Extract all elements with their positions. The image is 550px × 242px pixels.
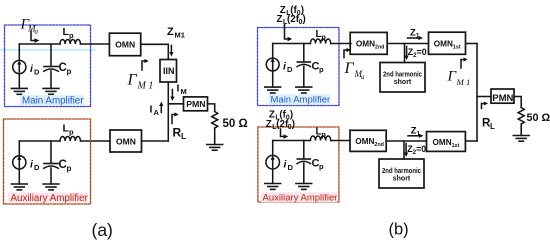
- Auxiliary Amplifier caption (b): [261, 192, 337, 203]
- ground under current source (b main): [265, 71, 281, 93]
- resistor 50ohm (a): [212, 112, 218, 129]
- wire down to current source (a aux): [18, 141, 20, 156]
- main amplifier enclosure (b): [258, 28, 340, 106]
- arrow elbow ZL node (b bottom): [281, 129, 289, 139]
- label 50 ohm (a): [223, 118, 248, 130]
- label Z2=0 (b top): [408, 47, 427, 59]
- label RL (a): [173, 126, 187, 142]
- vertical bus wire (b): [476, 44, 478, 142]
- svg-text:2nd harmonic: 2nd harmonic: [383, 71, 422, 78]
- arrow ZM1 down: [169, 46, 173, 57]
- svg-text:IIN: IIN: [163, 66, 175, 76]
- current source iD (a aux): [13, 156, 26, 169]
- label iD (b main): [283, 61, 293, 75]
- ground under current source (a aux): [11, 169, 27, 190]
- svg-text:p: p: [322, 132, 326, 139]
- Main Amplifier caption (a): [20, 95, 84, 106]
- current source iD (a main): [13, 60, 26, 73]
- label iD (a main): [30, 63, 40, 77]
- label Gamma_M1 (b): [447, 69, 471, 87]
- OMN1st box (b bottom): [427, 132, 466, 152]
- wire top (aux a): [19, 140, 60, 142]
- wire OMN to corner (a top): [141, 43, 169, 45]
- wire down to current source (b main): [272, 44, 274, 59]
- svg-text:a: a: [361, 73, 365, 81]
- svg-text:Auxiliary Amplifier: Auxiliary Amplifier: [11, 193, 89, 204]
- OMN box (a bottom): [110, 130, 142, 152]
- label Cp (b main): [312, 61, 325, 75]
- inductor Lp (b main): [310, 39, 330, 44]
- wire PMN to load resistor (b): [514, 97, 521, 108]
- OMN2nd box (b bottom): [350, 130, 386, 151]
- wire from top node down to current source (a main): [18, 44, 20, 60]
- svg-text:p: p: [67, 164, 72, 173]
- label iD (a aux): [30, 159, 40, 173]
- capacitor Cp branch wire (b aux): [303, 141, 305, 159]
- label Z1 (b top): [410, 26, 420, 39]
- capacitor Cp (a main): [44, 67, 58, 89]
- svg-text:a: a: [35, 28, 39, 36]
- auxiliary amplifier enclosure (b): [258, 127, 339, 202]
- svg-text:D: D: [287, 65, 293, 74]
- ground under current source (a main): [11, 74, 27, 95]
- label ZL(f0) (b bottom): [269, 109, 293, 121]
- wire top (b aux): [273, 140, 311, 142]
- 2nd harmonic short box (b top): [380, 63, 425, 93]
- label RL (b): [482, 118, 495, 132]
- ground under capacitor (a aux): [43, 184, 59, 190]
- svg-text:OMN: OMN: [115, 40, 135, 50]
- capacitor Cp (a aux): [44, 164, 58, 184]
- wire bus to PMN (b): [477, 96, 491, 98]
- svg-text:50 Ω: 50 Ω: [527, 112, 550, 124]
- wire coil to OMN2nd (b top): [331, 43, 351, 45]
- label Cp (a main): [59, 62, 72, 76]
- PMN box (a): [184, 97, 208, 111]
- svg-text:Main Amplifier: Main Amplifier: [22, 96, 84, 107]
- svg-text:p: p: [69, 128, 74, 137]
- arrow elbow at Gamma_Ma node: [31, 31, 40, 43]
- hook arrow Gamma_M1 (a): [142, 59, 149, 70]
- arrow Z2 down (b bottom): [404, 144, 408, 158]
- OMN box (a top): [109, 33, 140, 56]
- label IM (a): [177, 83, 187, 97]
- caption (a): [92, 220, 113, 240]
- wire junction down to harmonic short (b top): [404, 44, 406, 63]
- svg-text:D: D: [288, 163, 294, 172]
- svg-text:D: D: [34, 163, 40, 172]
- hook arrow RL (a): [172, 112, 179, 123]
- wire OMN1st to bus (b bottom): [466, 140, 478, 142]
- label ZL(f0) (b top): [280, 5, 304, 17]
- capacitor Cp branch wire (a main): [50, 44, 52, 66]
- svg-text:Z: Z: [266, 119, 272, 130]
- ground under capacitor (b aux): [296, 184, 312, 190]
- inductor Lp (b aux): [310, 136, 330, 141]
- svg-text:M1: M1: [175, 31, 185, 40]
- wire aux to lower OMN (a): [81, 140, 111, 142]
- svg-text:OMN: OMN: [116, 137, 136, 147]
- svg-text:PMN: PMN: [492, 93, 513, 104]
- svg-text:(a): (a): [92, 220, 113, 240]
- IIN box (a): [160, 60, 177, 83]
- svg-text:PMN: PMN: [186, 99, 205, 109]
- svg-text:p: p: [319, 65, 324, 74]
- label Lp (a main): [63, 26, 75, 40]
- svg-text:): ): [292, 119, 295, 130]
- svg-text:): ): [303, 14, 306, 25]
- faint scan artifact line: [0, 49, 95, 51]
- svg-text:p: p: [67, 67, 72, 76]
- label Z1 (b bottom): [411, 124, 421, 137]
- wire top (b main): [273, 43, 311, 45]
- arrow Z1 right (b bottom): [408, 134, 424, 138]
- OMN2nd box (b top): [350, 32, 387, 54]
- label iD (b aux): [284, 159, 294, 173]
- PMN box (b): [491, 89, 514, 104]
- svg-text:short: short: [393, 176, 411, 183]
- wire OMN2nd to OMN1st (b top): [389, 43, 428, 45]
- wire junction to PMN (a): [168, 103, 183, 105]
- caption (b): [389, 221, 409, 239]
- ground under load (a): [207, 145, 223, 151]
- wire OMN1st right to bus (b top): [467, 43, 478, 45]
- wire IIN down to junction (a): [167, 82, 169, 141]
- svg-text:p: p: [322, 35, 326, 42]
- inductor Lp (a aux): [60, 137, 80, 142]
- svg-text:D: D: [34, 68, 40, 77]
- wire down to current source (b aux): [272, 141, 274, 156]
- svg-text:Z: Z: [277, 14, 283, 25]
- wire resistor to ground (a): [214, 128, 216, 144]
- label Cp (b aux): [312, 158, 325, 172]
- wire resistor to ground (b): [520, 124, 522, 135]
- label Z2=0 (b bottom): [407, 144, 426, 156]
- label Lp (a aux): [63, 123, 75, 137]
- svg-text:I: I: [150, 104, 153, 116]
- svg-text:2nd harmonic: 2nd harmonic: [382, 168, 421, 175]
- current source iD (b main): [266, 58, 279, 71]
- resistor 50ohm (b): [518, 108, 524, 125]
- ground under current source (b aux): [265, 169, 281, 189]
- current source iD (b aux): [266, 155, 280, 169]
- label Cp (a aux): [59, 159, 72, 173]
- svg-text:M: M: [181, 87, 187, 96]
- label ZL(2f0) (b top): [277, 14, 306, 26]
- hook arrow Gamma_Ma (b): [344, 48, 351, 58]
- label IA (a): [150, 104, 160, 118]
- Main Amplifier caption (b): [269, 94, 331, 105]
- label ZL(2f0) (b bottom): [266, 119, 295, 131]
- svg-text:Γ: Γ: [127, 72, 138, 89]
- ground under capacitor (a main): [43, 88, 59, 94]
- arrow IM down: [170, 90, 174, 102]
- svg-text:Γ: Γ: [344, 60, 355, 77]
- label Gamma_Ma (b): [344, 60, 366, 81]
- main amplifier enclosure (a): [5, 25, 91, 107]
- arrow Z1 right (b top): [408, 36, 424, 40]
- arrow Z2 down (b top): [405, 47, 409, 61]
- svg-text:Main Amplifier: Main Amplifier: [271, 95, 331, 106]
- label Lp (b aux): [316, 127, 326, 140]
- ground under capacitor (b main): [296, 87, 312, 93]
- inductor Lp (a main): [60, 40, 80, 45]
- svg-text:Z: Z: [167, 26, 174, 38]
- svg-text:short: short: [394, 79, 412, 86]
- ground under load (b): [513, 136, 529, 142]
- capacitor Cp branch wire (a aux): [50, 141, 52, 163]
- arrow IA up: [159, 102, 163, 113]
- OMN1st box (b top): [429, 32, 466, 54]
- svg-text:A: A: [154, 108, 160, 117]
- label Gamma_M1 (a): [127, 72, 154, 92]
- svg-text:L: L: [490, 122, 495, 131]
- wire corner down to IIN: [167, 44, 169, 59]
- label Gamma_Ma (a): [20, 17, 39, 36]
- hook arrow RL (b): [482, 102, 489, 109]
- node ZM1 label: [167, 26, 185, 40]
- Auxiliary Amplifier caption (a): [8, 193, 89, 204]
- wire junction down to harmonic short (b bottom): [403, 141, 405, 159]
- wire OMN2nd to OMN1st (b bottom): [386, 140, 427, 142]
- wire top (a) left segment: [19, 43, 60, 45]
- svg-text:50 Ω: 50 Ω: [223, 118, 248, 130]
- svg-text:(b): (b): [389, 221, 409, 239]
- wire top (a) right segment to OMN: [81, 43, 110, 45]
- capacitor Cp (b main): [297, 62, 310, 87]
- svg-text:p: p: [69, 31, 74, 40]
- svg-text:M 1: M 1: [456, 77, 471, 87]
- hook arrow Gamma_M1 (b): [461, 57, 468, 68]
- capacitor Cp (b aux): [297, 159, 310, 183]
- svg-text:M 1: M 1: [137, 81, 154, 92]
- arrow elbow ZL node (b top): [285, 25, 293, 42]
- svg-text:L: L: [181, 131, 186, 141]
- auxiliary amplifier enclosure (a): [4, 119, 91, 204]
- wire PMN to load resistor (a): [208, 104, 215, 112]
- 2nd harmonic short box (b bottom): [379, 159, 424, 188]
- wire coil to OMN2nd (b bottom): [331, 140, 350, 142]
- capacitor Cp branch wire (b main): [303, 44, 305, 62]
- label 50 ohm (b): [527, 112, 550, 124]
- svg-text:p: p: [319, 162, 324, 171]
- svg-text:Auxiliary Amplifier: Auxiliary Amplifier: [263, 193, 338, 204]
- label Lp (b main): [316, 29, 326, 42]
- svg-text:I: I: [177, 83, 180, 95]
- wire lower OMN to junction (a): [142, 140, 169, 142]
